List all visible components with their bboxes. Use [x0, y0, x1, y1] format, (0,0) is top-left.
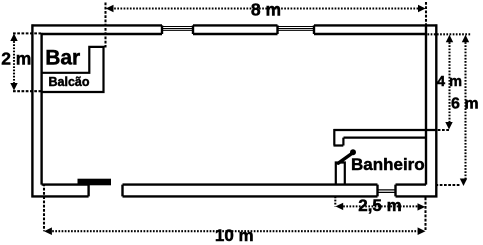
svg-text:4 m: 4 m — [437, 74, 462, 90]
svg-text:10 m: 10 m — [215, 226, 254, 245]
svg-text:Bar: Bar — [45, 46, 80, 69]
svg-text:2,5 m: 2,5 m — [358, 196, 401, 215]
svg-text:6 m: 6 m — [451, 96, 479, 113]
svg-text:Balcão: Balcão — [49, 75, 90, 89]
svg-text:2 m: 2 m — [1, 49, 31, 69]
svg-text:Banheiro: Banheiro — [351, 155, 425, 174]
svg-text:8 m: 8 m — [251, 0, 281, 20]
